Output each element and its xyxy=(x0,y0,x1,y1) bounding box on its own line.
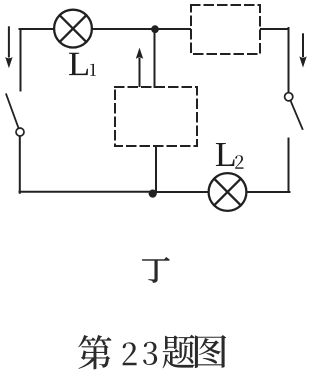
caption digit 2 xyxy=(123,342,137,365)
switch S1 pivot circle (left, open switch) xyxy=(16,128,24,136)
current direction arrow, right branch (downward) xyxy=(299,33,306,67)
junction node A (top) xyxy=(151,25,159,33)
caption char 图 xyxy=(195,335,226,368)
wire: junction A to dashed box B1 xyxy=(155,28,190,30)
lamp L2 xyxy=(209,173,247,211)
caption char 题 xyxy=(163,335,195,369)
wire: right vertical lower (switch S2 contact down to bottom corner) xyxy=(288,139,290,193)
wire: dashed box B2 down to junction B xyxy=(155,146,157,191)
switch S1 blade (open) xyxy=(6,94,18,128)
wire: left vertical upper (top corner down to switch S1 fixed contact) xyxy=(20,29,22,91)
current direction arrow, left branch (downward) xyxy=(5,26,12,68)
wire: left vertical lower (bottom corner up to switch S1 pivot) xyxy=(19,136,21,193)
wire: bottom horizontal, right corner to lamp L2 xyxy=(247,191,290,193)
wire: lamp L1 to junction A xyxy=(92,28,155,30)
caption char 第 xyxy=(78,335,111,369)
label L2 (lamp 2) xyxy=(216,143,244,169)
caption digit 3 xyxy=(143,342,157,365)
dashed box B2 (unknown component placeholder, middle) xyxy=(115,87,197,146)
switch S2 pivot circle (right, open switch) xyxy=(285,93,293,101)
wire: junction A down to dashed box B2 xyxy=(154,31,156,87)
wire: right vertical upper (corner down to switch S2 pivot) xyxy=(288,28,290,92)
current direction arrow, middle branch (upward) xyxy=(136,48,143,87)
wire: lamp L2 to junction B xyxy=(155,191,209,193)
wire: top horizontal, corner to lamp L1 xyxy=(20,28,54,30)
label 丁 (circuit variant name "Ding") xyxy=(142,257,169,282)
wire: bottom horizontal, junction B to left corner xyxy=(20,191,156,193)
junction node B (bottom) xyxy=(149,190,157,198)
wire: box B1 to top-right corner xyxy=(261,28,289,30)
switch S2 blade (open) xyxy=(290,100,302,129)
label L1 (lamp 1) xyxy=(69,53,96,76)
lamp L1 xyxy=(54,10,92,48)
dashed box B1 (unknown component placeholder, top right) xyxy=(191,5,260,54)
